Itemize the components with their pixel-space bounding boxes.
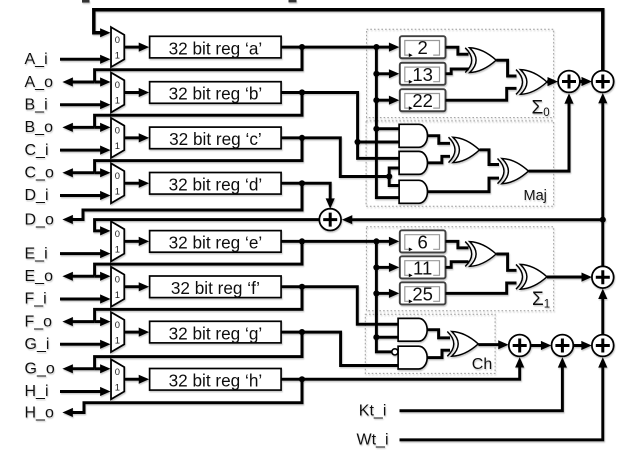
junction T1 split: [600, 217, 606, 223]
svg-text:1: 1: [115, 49, 120, 60]
svg-text:0: 0: [115, 170, 120, 181]
register reg_a (32 bit reg 'a'): [150, 36, 282, 58]
and gate MJ2: [399, 151, 427, 174]
svg-text:G_i: G_i: [25, 336, 50, 353]
wire reg g output to Ch: [281, 332, 398, 365]
and gate MJ1: [399, 124, 427, 147]
adder AD1 (d + T1): [319, 209, 341, 231]
junction rot11 tap: [373, 264, 379, 270]
junction rot25 tap: [373, 290, 379, 296]
rotate box ROTR6: [400, 230, 446, 252]
wire mux b to register: [124, 91, 140, 94]
wire H_i into mux: [60, 390, 101, 393]
xor gate S1A: [465, 242, 496, 267]
rotate box ROTR11: [400, 256, 446, 278]
wire e into Ch and1: [376, 336, 398, 339]
wire reg c output to Maj: [281, 138, 389, 177]
adder AC3 (+ Wt): [592, 335, 614, 357]
svg-text:D_o: D_o: [25, 211, 54, 228]
xor gate CHX: [447, 332, 478, 357]
wire reg f output to Ch: [281, 287, 398, 325]
wire rot2 to xor S0A: [446, 47, 469, 54]
register reg_d (32 bit reg 'd'): [150, 173, 282, 195]
wire reg b output to Maj: [281, 93, 358, 143]
svg-text:E_o: E_o: [25, 268, 54, 285]
svg-text:1: 1: [115, 334, 120, 345]
and gate CH2: [398, 346, 427, 369]
wire c into Maj and3: [389, 177, 399, 186]
wire mux e to register: [124, 240, 140, 243]
wire mux c to register: [124, 136, 140, 139]
wire Ch output to adder AC1: [478, 343, 499, 346]
svg-text:32 bit reg ‘f’: 32 bit reg ‘f’: [171, 278, 260, 298]
Ch dotted box: [365, 314, 495, 373]
Sigma1 distribution vertical (e): [376, 241, 391, 352]
junction rot13 tap: [373, 71, 379, 77]
svg-text:1: 1: [115, 382, 120, 393]
wire e into rot25: [376, 292, 390, 295]
wire and MJ2 to xor MJX1: [428, 156, 451, 163]
wire reg e loop-back to E_o and mux f: [95, 241, 302, 276]
wire reg c loop-back to C_o and mux d: [95, 138, 302, 173]
inverter bubble Ch: [392, 349, 398, 355]
and gate CH1: [398, 318, 427, 341]
svg-text:G_o: G_o: [25, 361, 55, 378]
junction reg c output: [299, 135, 305, 141]
register reg_h (32 bit reg 'h'): [150, 369, 282, 391]
junction reg e output: [299, 238, 305, 244]
junction c stub: [386, 173, 392, 179]
wire reg e output to Sigma1: [281, 240, 390, 243]
wire Wt_i into adder AC3: [400, 367, 603, 440]
svg-text:Ch: Ch: [472, 356, 492, 373]
wire xor S1B to adder AS1: [547, 276, 582, 279]
wire rot22 to xor S0B: [446, 88, 517, 100]
register reg_e (32 bit reg 'e'): [150, 231, 282, 253]
mux Md: [111, 163, 124, 203]
svg-text:32 bit reg ‘g’: 32 bit reg ‘g’: [169, 323, 263, 343]
wire a into rot22: [376, 99, 390, 102]
wire Kt_i into adder AC2: [400, 367, 563, 411]
wire rot11 to xor S1A: [446, 262, 469, 268]
svg-text:C_o: C_o: [25, 165, 54, 182]
junction reg g output: [299, 329, 305, 335]
svg-text:F_o: F_o: [25, 313, 53, 330]
adder A2 (T2 + T1 = new a): [592, 71, 614, 93]
wire a into Maj and1: [376, 127, 399, 130]
register reg_b (32 bit reg 'b'): [150, 82, 282, 104]
wire H_o: [71, 379, 302, 412]
xor gate S1B: [516, 264, 547, 289]
wire new-a feedback (top): [94, 10, 603, 71]
junction b tap: [355, 139, 361, 145]
wire mux g to register: [124, 331, 140, 334]
mux Mh: [111, 359, 124, 399]
rotate box ROTR25: [400, 282, 446, 304]
svg-text:1: 1: [115, 289, 120, 300]
svg-text:A_i: A_i: [25, 51, 48, 68]
xor gate MJX2: [498, 159, 529, 184]
svg-text:H_i: H_i: [25, 383, 49, 400]
svg-text:32 bit reg ‘c’: 32 bit reg ‘c’: [169, 129, 262, 149]
xor gate S0B: [516, 70, 547, 95]
svg-text:H_o: H_o: [25, 404, 54, 421]
svg-text:0: 0: [115, 79, 120, 90]
svg-text:0: 0: [115, 125, 120, 136]
cropped caption fragment right: [289, 0, 297, 2]
wire and CH2 to xor CHX: [427, 350, 450, 357]
svg-text:2: 2: [418, 37, 428, 58]
wire and CH1 to xor CHX: [427, 330, 450, 338]
svg-text:Wt_i: Wt_i: [357, 432, 389, 449]
wire mux h to register: [124, 378, 140, 381]
mux Me: [111, 221, 124, 261]
svg-text:1: 1: [115, 244, 120, 255]
rotate box ROTR13: [400, 63, 446, 85]
svg-text:Kt_i: Kt_i: [359, 402, 387, 419]
junction reg d output: [299, 180, 305, 186]
wire reg a output to Sigma0: [281, 46, 390, 49]
svg-text:A_o: A_o: [25, 74, 54, 91]
wire xor S0B to adder A1: [547, 80, 550, 83]
svg-text:32 bit reg ‘b’: 32 bit reg ‘b’: [169, 84, 263, 104]
svg-text:13: 13: [412, 64, 433, 85]
junction a Maj tap: [373, 126, 379, 132]
junction a to Sigma0 vertical: [373, 44, 379, 50]
svg-text:B_i: B_i: [25, 96, 48, 113]
adder AS1 (Sigma1 + T1a): [592, 266, 614, 288]
Maj dotted box: [366, 121, 554, 206]
xor gate MJX1: [449, 137, 480, 162]
adder AC2 (+ Kt): [552, 335, 574, 357]
wire reg d output to adder: [281, 183, 330, 199]
svg-text:0: 0: [115, 274, 120, 285]
wire reg h output to adder AC1: [281, 367, 520, 380]
wire reg f loop-back to F_o and mux g: [95, 287, 302, 322]
wire E_i into mux: [60, 252, 101, 255]
svg-text:E_i: E_i: [25, 245, 48, 262]
cropped caption fragment left: [82, 0, 90, 3]
wire b into Maj and2: [358, 142, 400, 158]
Sigma0 dotted box: [367, 29, 554, 117]
wire reg a loop-back to A_o and mux b: [95, 47, 302, 82]
wire xor S0A to xor S0B: [496, 60, 516, 76]
wire and MJ3 to xor MJX2: [428, 178, 500, 192]
svg-text:22: 22: [412, 90, 433, 111]
xor gate S0A: [465, 48, 496, 73]
wire G_i into mux: [60, 343, 101, 346]
wire AC2 to AC3: [573, 344, 582, 347]
mux Mb: [111, 73, 124, 113]
svg-text:1: 1: [115, 95, 120, 106]
Sigma0 distribution vertical (a): [376, 47, 399, 198]
wire c into Maj and2: [389, 168, 399, 177]
wire b into Maj and1: [358, 141, 400, 144]
register reg_f (32 bit reg 'f'): [150, 276, 282, 298]
wire C_i into mux: [60, 149, 101, 152]
adder AC1 (h + Ch): [509, 335, 531, 357]
register reg_g (32 bit reg 'g'): [150, 321, 282, 343]
wire mux d to register: [124, 182, 140, 185]
junction reg f output: [299, 284, 305, 290]
svg-text:6: 6: [418, 231, 428, 252]
junction e Ch tap: [373, 334, 379, 340]
junction reg b output: [299, 89, 305, 95]
wire adder AD1 output to mux e: [95, 220, 320, 231]
svg-text:1: 1: [115, 140, 120, 151]
svg-text:0: 0: [115, 319, 120, 330]
svg-text:32 bit reg ‘d’: 32 bit reg ‘d’: [169, 175, 263, 195]
svg-text:32 bit reg ‘h’: 32 bit reg ‘h’: [169, 371, 263, 391]
wire adder A1 to A2: [580, 80, 582, 83]
wire xor MJX1 to xor MJX2: [480, 150, 500, 165]
junction e to Sigma1 vertical: [373, 238, 379, 244]
svg-text:32 bit reg ‘a’: 32 bit reg ‘a’: [169, 38, 263, 58]
rotate box ROTR22: [400, 89, 446, 111]
svg-text:0: 0: [115, 366, 120, 377]
wire adder AC3 up into AS1: [601, 298, 604, 335]
junction rot22 tap: [373, 97, 379, 103]
wire F_i into mux: [60, 298, 101, 301]
wire e into rot11: [376, 266, 390, 269]
junction reg h output: [299, 376, 305, 382]
wire mux a to register: [124, 46, 140, 49]
wire D_o: [71, 183, 302, 219]
wire B_i into mux: [60, 103, 101, 106]
wire AC1 to AC2: [531, 344, 542, 347]
wire and MJ1 to xor MJX1: [428, 136, 451, 144]
wire D_i into mux: [60, 194, 101, 197]
wire rot25 to xor S1B: [446, 283, 517, 293]
svg-text:32 bit reg ‘e’: 32 bit reg ‘e’: [169, 233, 263, 253]
wire mux f to register: [124, 285, 140, 288]
svg-text:0: 0: [115, 228, 120, 239]
wire T1 up into adder A2: [601, 101, 604, 220]
svg-text:1: 1: [115, 186, 120, 197]
mux Mf: [111, 267, 124, 307]
mux Mc: [111, 118, 124, 158]
svg-text:0: 0: [115, 34, 120, 45]
wire rot13 to xor S0A: [446, 69, 469, 74]
svg-text:25: 25: [412, 283, 433, 304]
svg-text:B_o: B_o: [25, 119, 54, 136]
svg-text:D_i: D_i: [25, 187, 49, 204]
mux Mg: [111, 312, 124, 352]
mux Ma: [111, 27, 124, 67]
wire reg b loop-back to B_o and mux c: [95, 93, 302, 128]
adder A1 (Sigma0 + Maj): [558, 71, 580, 93]
and gate MJ3: [399, 180, 427, 203]
wire A_i into mux: [60, 58, 101, 61]
junction reg a output: [299, 44, 305, 50]
wire rot6 to xor S1A: [446, 241, 469, 248]
svg-text:Maj: Maj: [524, 188, 547, 204]
wire a into rot13: [376, 72, 390, 75]
Sigma1 dotted box: [366, 227, 553, 311]
wire reg g loop-back to G_o and mux h: [95, 332, 302, 369]
wire T1 into adder AD1: [352, 218, 603, 221]
wire AS1 output up: [601, 220, 604, 267]
wire Maj output to adder A1: [529, 101, 570, 172]
svg-text:11: 11: [413, 257, 432, 278]
wire xor S1A to xor S1B: [496, 254, 516, 270]
svg-text:F_i: F_i: [25, 291, 47, 308]
svg-text:C_i: C_i: [25, 142, 49, 159]
register reg_c (32 bit reg 'c'): [150, 127, 282, 149]
rotate box ROTR2: [400, 36, 446, 58]
